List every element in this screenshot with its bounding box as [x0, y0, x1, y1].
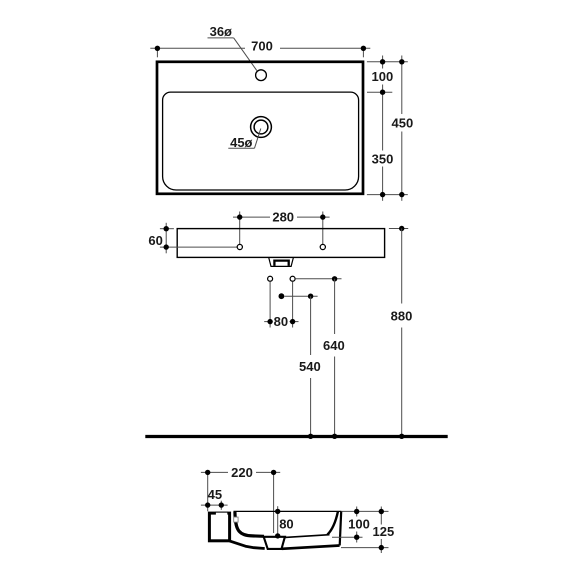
dim 540 line: [308, 296, 313, 439]
fixing hole right below: [290, 276, 295, 281]
dim 220 line: [201, 470, 280, 533]
side view rim line: [234, 510, 342, 512]
drain hole 45ø: [251, 117, 272, 138]
svg-text:280: 280: [272, 209, 294, 224]
svg-text:45: 45: [208, 487, 222, 502]
svg-text:125: 125: [373, 524, 395, 539]
svg-text:100: 100: [348, 517, 370, 532]
drain center dot: [279, 293, 285, 299]
dim 280 line: [233, 212, 330, 245]
svg-text:450: 450: [392, 115, 414, 130]
svg-text:45ø: 45ø: [230, 135, 252, 150]
waste trap box (side view): [264, 537, 285, 549]
basin bottom right outer (side view): [282, 546, 340, 549]
svg-text:700: 700: [251, 39, 273, 54]
right extension lines (top view): [367, 62, 408, 195]
mounting hole right (front view): [320, 244, 325, 249]
mounting hole left (front view): [237, 244, 242, 249]
dim 100 line (side): [354, 507, 359, 543]
basin outer rim (top view): [157, 62, 363, 194]
dim 45 line: [201, 501, 228, 510]
svg-text:60: 60: [148, 233, 162, 248]
outer bottom left (side view): [230, 541, 265, 549]
label 45ø leader: [228, 129, 260, 149]
basin back wall (side view): [235, 512, 264, 537]
dim 80 line (side): [275, 506, 280, 538]
dim 450 line: [399, 56, 404, 201]
dim 880 line: [399, 229, 404, 439]
label 36ø leader: [208, 38, 257, 71]
dim 880 top extension: [389, 226, 408, 231]
dim 700 line: [150, 46, 370, 58]
extension from fixing holes down: [270, 282, 293, 328]
dim 640 line: [332, 279, 337, 439]
wall bracket block (side view): [209, 511, 229, 541]
dim 125 extension (side): [341, 547, 389, 549]
dim 80 line (front): [264, 319, 298, 324]
pedestal front view outline: [177, 229, 384, 258]
mounting slot (side view): [234, 517, 238, 522]
svg-text:540: 540: [299, 359, 321, 374]
dim 100/350 line: [380, 56, 385, 201]
rim extension to 125: [341, 510, 388, 512]
floor line: [145, 435, 447, 438]
waste outlet stub (front view): [269, 258, 294, 267]
svg-text:80: 80: [274, 314, 288, 329]
right wall outer (side view): [340, 512, 342, 546]
dim 125 line (side): [379, 507, 384, 554]
line to 640: [295, 276, 341, 281]
svg-text:80: 80: [279, 516, 293, 531]
svg-text:100: 100: [372, 69, 394, 84]
svg-text:220: 220: [231, 465, 253, 480]
basin inner bowl (top view): [163, 92, 359, 190]
basin bottom right inner (side view): [285, 535, 330, 538]
svg-text:880: 880: [391, 308, 413, 323]
line to 540: [284, 294, 317, 299]
svg-text:640: 640: [323, 338, 345, 353]
fixing hole left below: [268, 276, 273, 281]
right wall inner (side view): [327, 512, 338, 535]
svg-text:36ø: 36ø: [210, 24, 232, 39]
faucet hole 36ø: [256, 70, 267, 81]
svg-text:350: 350: [372, 151, 394, 166]
dim 60 line: [160, 223, 237, 254]
dim 100 extension (side): [332, 536, 363, 538]
